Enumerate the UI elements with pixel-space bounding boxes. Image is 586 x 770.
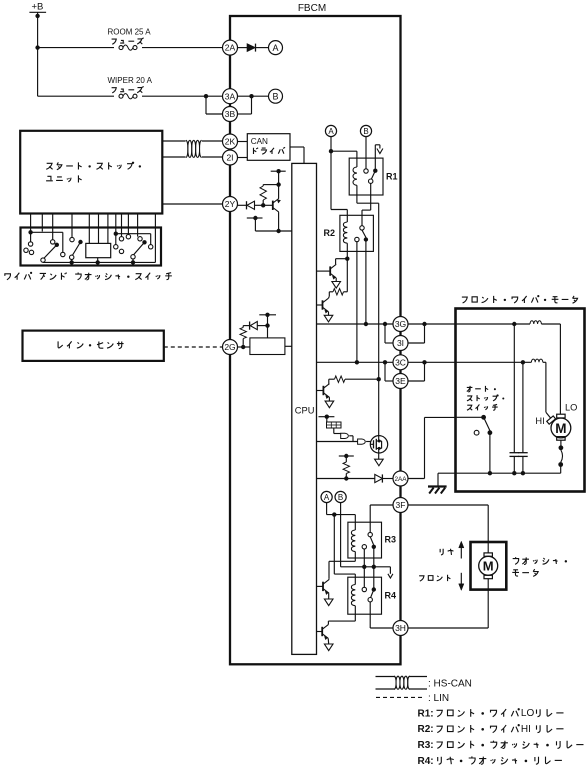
svg-text:3F: 3F bbox=[396, 500, 406, 510]
svg-text:: HS-CAN: : HS-CAN bbox=[428, 678, 472, 689]
svg-text:3B: 3B bbox=[225, 109, 236, 119]
svg-text:M: M bbox=[555, 421, 566, 436]
svg-text:+B: +B bbox=[32, 2, 44, 13]
svg-text:A: A bbox=[272, 43, 278, 53]
svg-text:A: A bbox=[324, 493, 330, 502]
svg-text:M: M bbox=[483, 559, 494, 574]
svg-text:R3:: R3: bbox=[418, 740, 434, 751]
svg-text:2I: 2I bbox=[226, 153, 233, 163]
svg-text:R1:: R1: bbox=[418, 708, 434, 719]
svg-text:2K: 2K bbox=[225, 137, 236, 147]
svg-text:3G: 3G bbox=[395, 319, 406, 329]
svg-text:R3: R3 bbox=[385, 535, 397, 545]
svg-text:R1: R1 bbox=[386, 171, 398, 181]
svg-text:FBCM: FBCM bbox=[298, 3, 326, 14]
svg-text:B: B bbox=[272, 91, 278, 101]
svg-text:: LIN: : LIN bbox=[428, 693, 449, 704]
svg-text:3I: 3I bbox=[397, 338, 404, 348]
svg-text:R4: R4 bbox=[385, 590, 397, 600]
svg-text:R2: R2 bbox=[324, 228, 336, 238]
svg-text:2A: 2A bbox=[225, 43, 236, 53]
svg-text:2Y: 2Y bbox=[225, 199, 236, 209]
svg-text:HI: HI bbox=[535, 416, 544, 426]
svg-text:3H: 3H bbox=[395, 623, 406, 633]
svg-text:CPU: CPU bbox=[295, 405, 315, 415]
svg-text:B: B bbox=[363, 127, 368, 136]
svg-text:3A: 3A bbox=[225, 91, 236, 101]
svg-text:HI: HI bbox=[521, 724, 531, 735]
svg-text:3E: 3E bbox=[395, 376, 406, 386]
svg-text:CAN: CAN bbox=[251, 137, 268, 146]
svg-text:2G: 2G bbox=[224, 342, 235, 352]
svg-text:R4:: R4: bbox=[418, 756, 434, 767]
svg-text:A: A bbox=[328, 127, 334, 136]
svg-text:LO: LO bbox=[521, 708, 535, 719]
svg-text:LO: LO bbox=[565, 403, 577, 413]
svg-text:R2:: R2: bbox=[418, 724, 434, 735]
svg-text:3C: 3C bbox=[395, 357, 406, 367]
svg-text:ROOM 25 A: ROOM 25 A bbox=[108, 28, 152, 37]
svg-text:2AA: 2AA bbox=[394, 476, 407, 483]
svg-text:B: B bbox=[338, 493, 343, 502]
svg-text:WIPER 20 A: WIPER 20 A bbox=[108, 76, 153, 85]
